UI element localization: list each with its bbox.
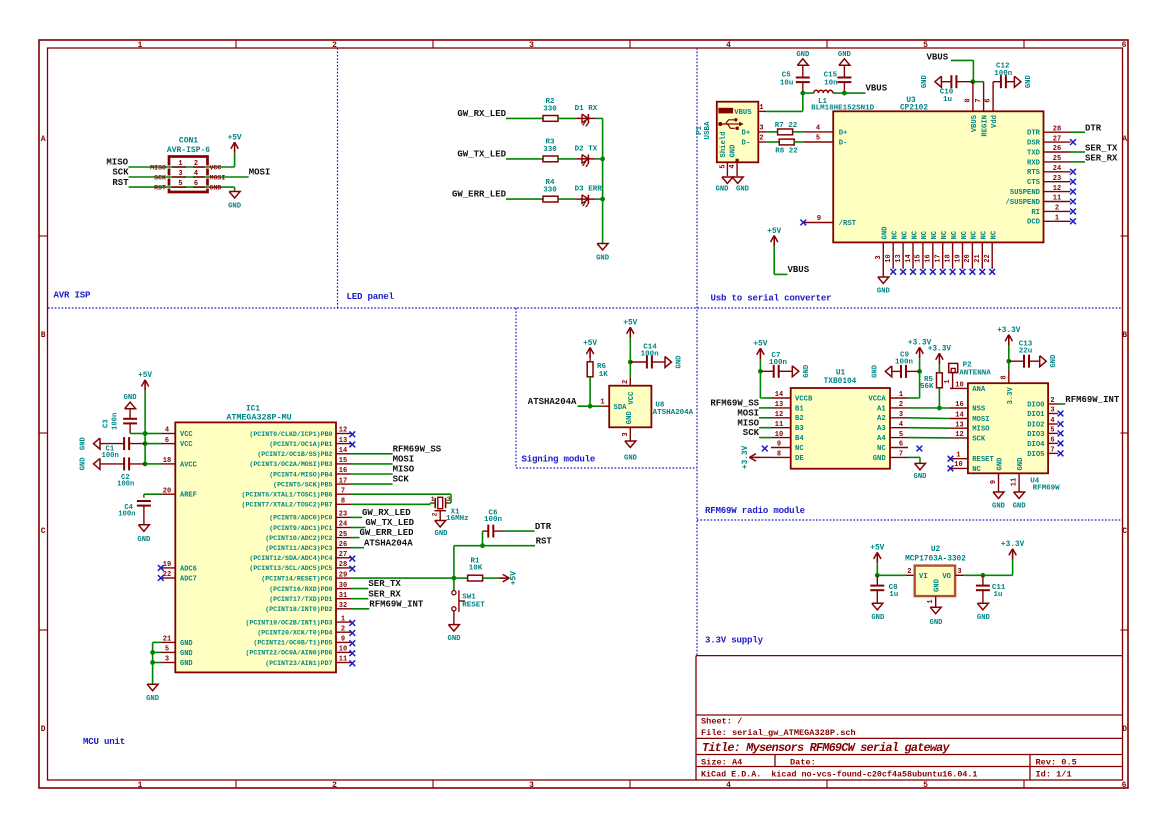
- svg-text:Id: 1/1: Id: 1/1: [1036, 769, 1072, 779]
- svg-text:A3: A3: [877, 425, 886, 433]
- svg-text:DSR: DSR: [1027, 140, 1041, 148]
- svg-text:16: 16: [955, 401, 963, 409]
- svg-text:100n: 100n: [117, 481, 134, 489]
- op-amp U2 MCP1703A-3302 body: [915, 566, 955, 597]
- wire C3 to VCC rail: [130, 433, 145, 435]
- svg-text:B: B: [41, 331, 46, 340]
- U3 pin 28 DTR: [1027, 125, 1070, 137]
- resistor R7 22: [775, 122, 798, 135]
- IC1 pin 22 ADC7 (left): [161, 571, 197, 583]
- svg-text:GND: GND: [977, 614, 991, 622]
- svg-text:GND: GND: [992, 503, 1006, 511]
- ground GND above C15: [838, 51, 852, 66]
- svg-text:4: 4: [729, 164, 737, 168]
- svg-text:VBUS: VBUS: [971, 114, 979, 132]
- svg-text:GND: GND: [146, 695, 160, 703]
- svg-text:SCK: SCK: [393, 475, 410, 485]
- U1 pin 2 A1 (right): [877, 401, 908, 413]
- wire CON1 pin 6 to GND: [234, 187, 236, 191]
- U2 pin name GND (rotated): [934, 578, 942, 592]
- wire D2 to GND bus: [595, 158, 603, 160]
- P1 value USBA: [704, 121, 712, 140]
- svg-text:GND: GND: [930, 619, 944, 627]
- wire R5 to A1 net: [938, 388, 940, 408]
- ground GND below C4: [137, 525, 151, 544]
- ground GND below U2: [930, 607, 944, 627]
- svg-text:27: 27: [1053, 135, 1061, 143]
- IC1 pin 3 GND (left): [161, 656, 193, 668]
- U1 pin 14 VCCB (left): [771, 391, 813, 403]
- wire RST row through CON1 to GND: [129, 186, 235, 188]
- svg-text:GND: GND: [871, 614, 885, 622]
- svg-text:A1: A1: [877, 405, 886, 413]
- IC1 pin 30 PD0: [269, 582, 351, 593]
- svg-text:VBUS: VBUS: [788, 265, 810, 275]
- svg-text:D+: D+: [839, 129, 848, 137]
- U1 pin 12 B2 (left): [771, 411, 804, 423]
- svg-text:13: 13: [955, 421, 963, 429]
- U1 pin 8 DE (left): [771, 451, 804, 463]
- svg-text:16: 16: [339, 467, 347, 475]
- capacitor C13 22u: [1009, 340, 1040, 367]
- IC1 pin 12 PB0: [249, 427, 351, 438]
- svg-text:3: 3: [447, 496, 451, 504]
- svg-text:SER_TX: SER_TX: [368, 579, 401, 589]
- wire IC1 pin 30 to label SER_TX: [351, 588, 368, 590]
- title block Size field: [701, 757, 742, 767]
- svg-text:4: 4: [726, 781, 731, 790]
- svg-text:GND: GND: [210, 185, 222, 192]
- wire GW_RX_LED to R2: [506, 117, 543, 119]
- no-connect X on U4 DIO4: [1058, 441, 1064, 447]
- svg-text:3: 3: [178, 170, 182, 178]
- svg-text:NC: NC: [911, 230, 919, 239]
- svg-text:3: 3: [1050, 407, 1054, 415]
- svg-text:SUSPEND: SUSPEND: [1010, 189, 1041, 197]
- title block outline and row lines: [696, 656, 1122, 780]
- svg-text:DIO3: DIO3: [1027, 431, 1044, 439]
- svg-text:NC: NC: [951, 230, 959, 239]
- label MOSI (MCU): [393, 455, 415, 465]
- svg-text:1K: 1K: [599, 371, 609, 379]
- svg-text:11: 11: [339, 656, 347, 664]
- svg-text:VCC: VCC: [180, 441, 193, 449]
- IC1 pin 17 PB5: [273, 477, 351, 488]
- U1 pin 7 GND (right): [873, 451, 908, 463]
- crystal X1 16MHz: [431, 496, 469, 523]
- U3 pin 18 NC (bottom): [944, 230, 959, 269]
- section title Usb to serial converter: [711, 293, 832, 304]
- label RFM69W_INT (U4): [1065, 395, 1120, 405]
- label MISO (U1): [737, 418, 759, 428]
- svg-text:VCC: VCC: [628, 391, 636, 405]
- svg-text:100n: 100n: [102, 452, 119, 460]
- ground GND left of C10: [921, 75, 942, 89]
- svg-text:2: 2: [907, 568, 911, 576]
- wire DE to +3.3V: [760, 456, 771, 458]
- U1 pin 3 A2 (right): [877, 411, 908, 423]
- svg-text:TX: TX: [588, 145, 598, 153]
- svg-text:100n: 100n: [769, 359, 788, 367]
- svg-text:GW_ERR_LED: GW_ERR_LED: [452, 190, 507, 200]
- svg-text:(PCINT0/CLKD/ICP1)PB0: (PCINT0/CLKD/ICP1)PB0: [249, 431, 332, 438]
- svg-text:330: 330: [543, 146, 557, 154]
- svg-text:U1: U1: [836, 369, 846, 377]
- svg-text:+5V: +5V: [511, 571, 519, 585]
- wire DTR to label: [1071, 131, 1086, 133]
- U4 pin 10 NC: [951, 461, 982, 474]
- wire RST down to reset node: [453, 546, 455, 578]
- svg-text:1: 1: [956, 452, 960, 460]
- U8 pin name VCC (rotated): [628, 391, 636, 405]
- P1 reference P1: [696, 126, 704, 136]
- svg-text:3: 3: [899, 411, 903, 419]
- U3 pin 24 RTS: [1027, 165, 1070, 177]
- svg-text:2: 2: [1055, 205, 1059, 213]
- transistor U4 RFM69W body: [968, 383, 1048, 473]
- svg-text:DE: DE: [795, 455, 804, 463]
- title block Title field: [702, 741, 951, 755]
- section title Signing module: [522, 454, 596, 465]
- svg-text:SER_RX: SER_RX: [368, 589, 401, 599]
- svg-text:C5: C5: [782, 72, 792, 80]
- svg-text:SER_TX: SER_TX: [1085, 143, 1118, 153]
- svg-text:GND: GND: [877, 288, 891, 296]
- svg-text:2: 2: [432, 512, 439, 516]
- svg-text:GW_TX_LED: GW_TX_LED: [365, 518, 414, 528]
- svg-text:DCD: DCD: [1027, 219, 1041, 227]
- svg-text:GND: GND: [180, 640, 193, 648]
- svg-text:D1: D1: [575, 105, 585, 113]
- svg-text:22u: 22u: [1019, 348, 1033, 356]
- svg-text:27: 27: [339, 551, 347, 559]
- svg-text:5: 5: [165, 646, 169, 654]
- P1 pin 5 Shield: [720, 132, 729, 176]
- resistor R5 56K: [920, 373, 942, 391]
- power +5V (AVR ISP): [228, 134, 242, 153]
- svg-text:DTR: DTR: [535, 522, 552, 532]
- svg-text:28: 28: [339, 561, 347, 569]
- no-connect X on U3 pin 22: [989, 269, 995, 275]
- svg-text:(PCINT2/OC1B/SS)PB2: (PCINT2/OC1B/SS)PB2: [257, 451, 332, 458]
- ground GND below U3: [877, 277, 891, 296]
- ground GND above C3: [124, 394, 138, 409]
- IC1 pin 7 PB6: [241, 487, 351, 498]
- svg-text:Sheet: /: Sheet: /: [701, 717, 742, 727]
- svg-text:D: D: [1122, 725, 1127, 734]
- IC1 pin 25 PC2: [265, 531, 351, 542]
- label GW_ERR_LED (MCU): [360, 528, 415, 538]
- label MISO (MCU): [393, 465, 415, 475]
- svg-text:SCK: SCK: [743, 428, 760, 438]
- IC1 pin 13 PB1: [269, 437, 351, 448]
- svg-text:B4: B4: [795, 435, 804, 443]
- junction AVCC row: [143, 462, 148, 467]
- svg-text:8: 8: [1001, 375, 1009, 379]
- LED D2 TX: [575, 145, 598, 167]
- svg-text:11: 11: [1053, 195, 1061, 203]
- svg-text:GND: GND: [626, 411, 634, 425]
- svg-text:23: 23: [339, 511, 347, 519]
- svg-text:NC: NC: [795, 445, 804, 453]
- wire IC1 pin 15 to label MOSI: [351, 463, 393, 465]
- IC1 pin 20 AREF (left): [161, 487, 197, 499]
- svg-text:ATSHA204A: ATSHA204A: [528, 397, 577, 407]
- svg-text:NC: NC: [921, 230, 929, 239]
- wire MISO row through CON1 to +5V: [128, 166, 234, 168]
- svg-text:10: 10: [885, 254, 893, 262]
- wire P1 VBUS to C5 junction: [766, 93, 802, 111]
- U4 pin 11 GND (bottom right): [1011, 457, 1026, 492]
- U3 pin 19 NC (bottom): [954, 230, 969, 269]
- wire IC1 pin7 to crystal jog: [351, 494, 451, 503]
- section title MCU unit: [83, 736, 125, 747]
- no-connect X on U3 pin 21: [979, 269, 985, 275]
- wire +5V to VBUS label: [774, 246, 787, 274]
- svg-text:1u: 1u: [889, 591, 898, 599]
- svg-text:(PCINT1/OC1A)PB1: (PCINT1/OC1A)PB1: [269, 441, 332, 448]
- junction C9 tap: [917, 369, 922, 374]
- svg-text:10: 10: [954, 461, 962, 469]
- svg-text:8: 8: [777, 451, 781, 459]
- P1 pin 4 GND: [729, 144, 739, 176]
- wire IC1 pin 17 to label SCK: [351, 483, 393, 485]
- U3 pin 10 NC (bottom): [885, 230, 900, 269]
- label SER_RX: [1085, 153, 1118, 163]
- svg-text:19: 19: [954, 254, 962, 262]
- svg-text:4: 4: [899, 421, 903, 429]
- wire P2 to U4 ANA: [950, 387, 953, 389]
- svg-text:DIO0: DIO0: [1027, 401, 1044, 409]
- svg-text:7: 7: [899, 451, 903, 459]
- svg-text:GND: GND: [180, 660, 193, 668]
- svg-text:22: 22: [984, 254, 992, 262]
- svg-text:2: 2: [899, 401, 903, 409]
- no-connect X on U3 pin 15: [920, 269, 926, 275]
- section divider AVR ISP / LED panel: [337, 48, 339, 308]
- svg-text:10K: 10K: [469, 564, 483, 572]
- junction C5 / L1: [800, 91, 805, 96]
- svg-text:AVR-ISP-6: AVR-ISP-6: [167, 146, 210, 155]
- IC1 pin 32 PD2: [265, 602, 351, 613]
- U3 pin 7 REGIN stub: [975, 82, 983, 112]
- wire VCC pin4: [145, 433, 161, 435]
- section divider vertical x=697: [696, 48, 698, 656]
- label DTR (U3): [1085, 124, 1102, 134]
- svg-text:8: 8: [965, 98, 973, 102]
- resistor R8 22: [775, 139, 798, 155]
- svg-text:CP2102: CP2102: [900, 105, 928, 113]
- label SER_TX (MCU): [368, 579, 401, 589]
- svg-text:DIO5: DIO5: [1027, 451, 1044, 459]
- wire VBUS label to U3 VBUS pin: [951, 60, 974, 81]
- op-amp U1 TXB0104 body: [791, 388, 890, 469]
- svg-text:VCC: VCC: [180, 431, 193, 439]
- svg-text:(PCINT23/AIN1)PD7: (PCINT23/AIN1)PD7: [265, 660, 332, 667]
- svg-text:MCP1703A-3302: MCP1703A-3302: [905, 555, 966, 563]
- wire +5V to U2 VI: [877, 563, 905, 575]
- power +3.3V (U4): [997, 327, 1021, 346]
- svg-text:RFM69W_INT: RFM69W_INT: [369, 599, 424, 609]
- svg-text:26: 26: [339, 541, 347, 549]
- svg-text:1: 1: [178, 160, 182, 168]
- junction L1 / C15: [842, 91, 847, 96]
- svg-text:D: D: [41, 725, 46, 734]
- svg-text:6: 6: [899, 441, 903, 449]
- wire IC1 pin8 to crystal: [351, 503, 435, 504]
- IC1 pin 18 AVCC (left): [161, 457, 197, 469]
- no-connect X on U3 pin 10: [890, 269, 896, 275]
- svg-text:NC: NC: [877, 445, 886, 453]
- signing module box left edge: [515, 308, 517, 468]
- svg-text:RFM69W radio module: RFM69W radio module: [705, 505, 806, 516]
- power +5V (regulator): [870, 545, 884, 564]
- P1 USB trident icon: [718, 118, 743, 130]
- wire SCK to B4: [759, 437, 771, 439]
- svg-text:MISO: MISO: [972, 426, 990, 434]
- svg-text:1: 1: [899, 391, 903, 399]
- U8 pin name SDA: [614, 404, 628, 412]
- svg-text:A4: A4: [877, 435, 886, 443]
- svg-text:ADC6: ADC6: [180, 565, 197, 573]
- CON1 pin 2 (right, VCC): [193, 160, 221, 172]
- wire R1 to +5V: [483, 577, 499, 579]
- U4 value RFM69W: [1033, 485, 1061, 493]
- svg-text:GND: GND: [448, 635, 462, 643]
- svg-text:NC: NC: [941, 230, 949, 239]
- U2 pin 2 VI stub: [906, 568, 915, 576]
- wire R4 to D3: [558, 198, 576, 200]
- wire P1 D- to R8: [766, 141, 779, 143]
- svg-text:RI: RI: [1031, 209, 1040, 217]
- label RFM69W_SS (MCU): [393, 444, 442, 454]
- svg-text:+5V: +5V: [623, 320, 637, 328]
- U1 value TXB0104: [824, 378, 857, 386]
- label MOSI (U1): [737, 408, 759, 418]
- svg-text:31: 31: [339, 592, 347, 600]
- U8 pin 3 GND stub: [622, 427, 630, 441]
- svg-text:1: 1: [944, 379, 952, 383]
- no-connect X on U3 pin 14: [910, 269, 916, 275]
- svg-text:(PCINT12/SDA/ADC4)PC4: (PCINT12/SDA/ADC4)PC4: [249, 555, 332, 562]
- svg-text:SCK: SCK: [972, 435, 986, 443]
- U3 pin 21 NC (bottom): [974, 230, 989, 269]
- wire SCK row U1 A4 to U4: [908, 437, 950, 439]
- IC1 pin 11 PD7: [265, 656, 351, 667]
- junction D2 row: [600, 157, 605, 162]
- svg-text:A2: A2: [877, 415, 886, 423]
- svg-text:ATSHA204A: ATSHA204A: [653, 409, 694, 417]
- power +5V (MCU): [138, 372, 152, 391]
- svg-text:GND: GND: [596, 255, 610, 263]
- svg-text:DIO2: DIO2: [1027, 421, 1044, 429]
- svg-text:(PCINT3/OC2A/MOSI)PB3: (PCINT3/OC2A/MOSI)PB3: [249, 461, 332, 468]
- svg-text:NC: NC: [901, 230, 909, 239]
- svg-text:+3.3V: +3.3V: [928, 346, 952, 354]
- svg-text:9: 9: [817, 215, 821, 223]
- no-connect X on U4 NC: [948, 466, 954, 472]
- U2 pin 3 VO stub: [955, 568, 964, 576]
- junction C8 tap: [875, 573, 880, 578]
- svg-text:6: 6: [165, 437, 169, 445]
- no-connect X on U3 pin 13: [900, 269, 906, 275]
- svg-text:SDA: SDA: [614, 404, 628, 412]
- junction RST/C6: [480, 543, 485, 548]
- svg-text:RX: RX: [588, 105, 598, 113]
- svg-text:R6: R6: [597, 363, 607, 371]
- wire P1 D+ to R7: [766, 131, 777, 133]
- svg-text:GND: GND: [435, 530, 449, 538]
- svg-text:+5V: +5V: [138, 372, 152, 380]
- svg-text:3: 3: [622, 432, 630, 436]
- ground GND below C8: [871, 603, 885, 622]
- svg-text:29: 29: [339, 571, 347, 579]
- svg-text:VO: VO: [942, 573, 951, 581]
- P1 pin 2 D-: [742, 135, 767, 148]
- svg-text:22: 22: [163, 571, 171, 579]
- no-connect X on /RST: [800, 220, 806, 226]
- capacitor C12 100n: [993, 62, 1014, 88]
- wire IC1 pin 32 to label RFM69W_INT: [351, 608, 369, 610]
- svg-text:4: 4: [165, 427, 169, 435]
- svg-text:ERR: ERR: [588, 186, 602, 194]
- svg-text:B: B: [1122, 331, 1127, 340]
- svg-text:100n: 100n: [112, 413, 120, 430]
- U4 pin 4 DIO2 (right): [1027, 417, 1058, 429]
- U1 pin 4 A3 (right): [877, 421, 908, 433]
- svg-text:13: 13: [895, 254, 903, 262]
- svg-text:2: 2: [341, 625, 345, 633]
- IC1 pin 4 VCC (left): [161, 427, 193, 439]
- wire reset node to R1: [454, 577, 468, 579]
- IC1 pin 19 ADC6 (left): [161, 561, 197, 573]
- wire RXD to label: [1071, 161, 1086, 163]
- svg-text:4: 4: [194, 170, 198, 178]
- svg-text:TXD: TXD: [1027, 149, 1041, 157]
- junction VCC pin6 row: [143, 441, 148, 446]
- svg-text:GND: GND: [676, 355, 684, 369]
- wire IC1 pin 14 to label RFM69W_SS: [351, 453, 393, 455]
- wire +5V to VCCB: [760, 359, 771, 398]
- svg-text:24: 24: [1053, 165, 1061, 173]
- svg-text:GND: GND: [716, 186, 730, 194]
- svg-text:16MHz: 16MHz: [446, 515, 469, 523]
- svg-text:3.3V supply: 3.3V supply: [705, 635, 764, 646]
- svg-text:NSS: NSS: [972, 405, 986, 413]
- svg-text:3: 3: [957, 568, 961, 576]
- label GW_ERR_LED: [452, 190, 507, 200]
- wire MISO to B3: [759, 427, 771, 429]
- svg-text:+5V: +5V: [228, 134, 242, 142]
- resistor R2 330: [543, 98, 558, 121]
- ground GND left of C2: [80, 457, 101, 471]
- svg-text:7: 7: [341, 487, 345, 495]
- U8 pin 2 VCC stub: [622, 377, 630, 385]
- wire SW1 to ground: [453, 611, 455, 625]
- svg-text:ANA: ANA: [972, 386, 986, 394]
- svg-text:RTS: RTS: [1027, 169, 1041, 177]
- U3 pin 26 TXD: [1027, 145, 1070, 157]
- no-connect X on U3 pin 16: [930, 269, 936, 275]
- svg-text:GND: GND: [228, 203, 242, 211]
- svg-text:13: 13: [339, 437, 347, 445]
- svg-text:D-: D-: [742, 140, 751, 148]
- CON1 pin 1 (left, MISO): [150, 160, 186, 172]
- P1 pin 3 D+: [742, 125, 767, 138]
- svg-text:18: 18: [944, 254, 952, 262]
- svg-text:10n: 10n: [824, 79, 838, 87]
- power +3.3V (R5): [928, 346, 952, 365]
